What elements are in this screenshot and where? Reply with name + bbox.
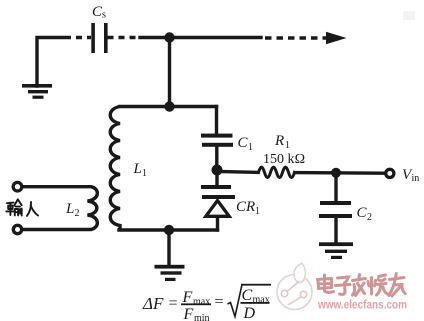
svg-text:1: 1 xyxy=(255,206,260,217)
svg-text:L: L xyxy=(65,201,74,217)
svg-text:www.elecfans.com: www.elecfans.com xyxy=(317,298,407,312)
svg-text:max: max xyxy=(253,295,270,306)
svg-text:F: F xyxy=(183,306,194,321)
svg-text:CR: CR xyxy=(236,199,255,215)
svg-text:C: C xyxy=(242,287,253,304)
svg-text:in: in xyxy=(412,173,420,184)
svg-text:150 kΩ: 150 kΩ xyxy=(263,152,305,167)
svg-text:2: 2 xyxy=(75,208,80,219)
svg-text:s: s xyxy=(102,10,106,21)
svg-text:1: 1 xyxy=(285,140,290,151)
svg-text:=: = xyxy=(215,294,224,311)
svg-text:min: min xyxy=(194,313,210,321)
svg-text:L: L xyxy=(133,161,142,177)
svg-text:1: 1 xyxy=(248,142,253,153)
svg-text:1: 1 xyxy=(142,168,147,179)
svg-text:R: R xyxy=(274,133,284,149)
svg-text:2: 2 xyxy=(367,212,372,223)
svg-text:=: = xyxy=(169,295,178,312)
svg-text:C: C xyxy=(357,205,368,221)
svg-text:C: C xyxy=(238,135,249,151)
svg-text:max: max xyxy=(193,297,210,308)
svg-text:D: D xyxy=(243,305,256,321)
svg-text:ΔF: ΔF xyxy=(142,294,164,313)
